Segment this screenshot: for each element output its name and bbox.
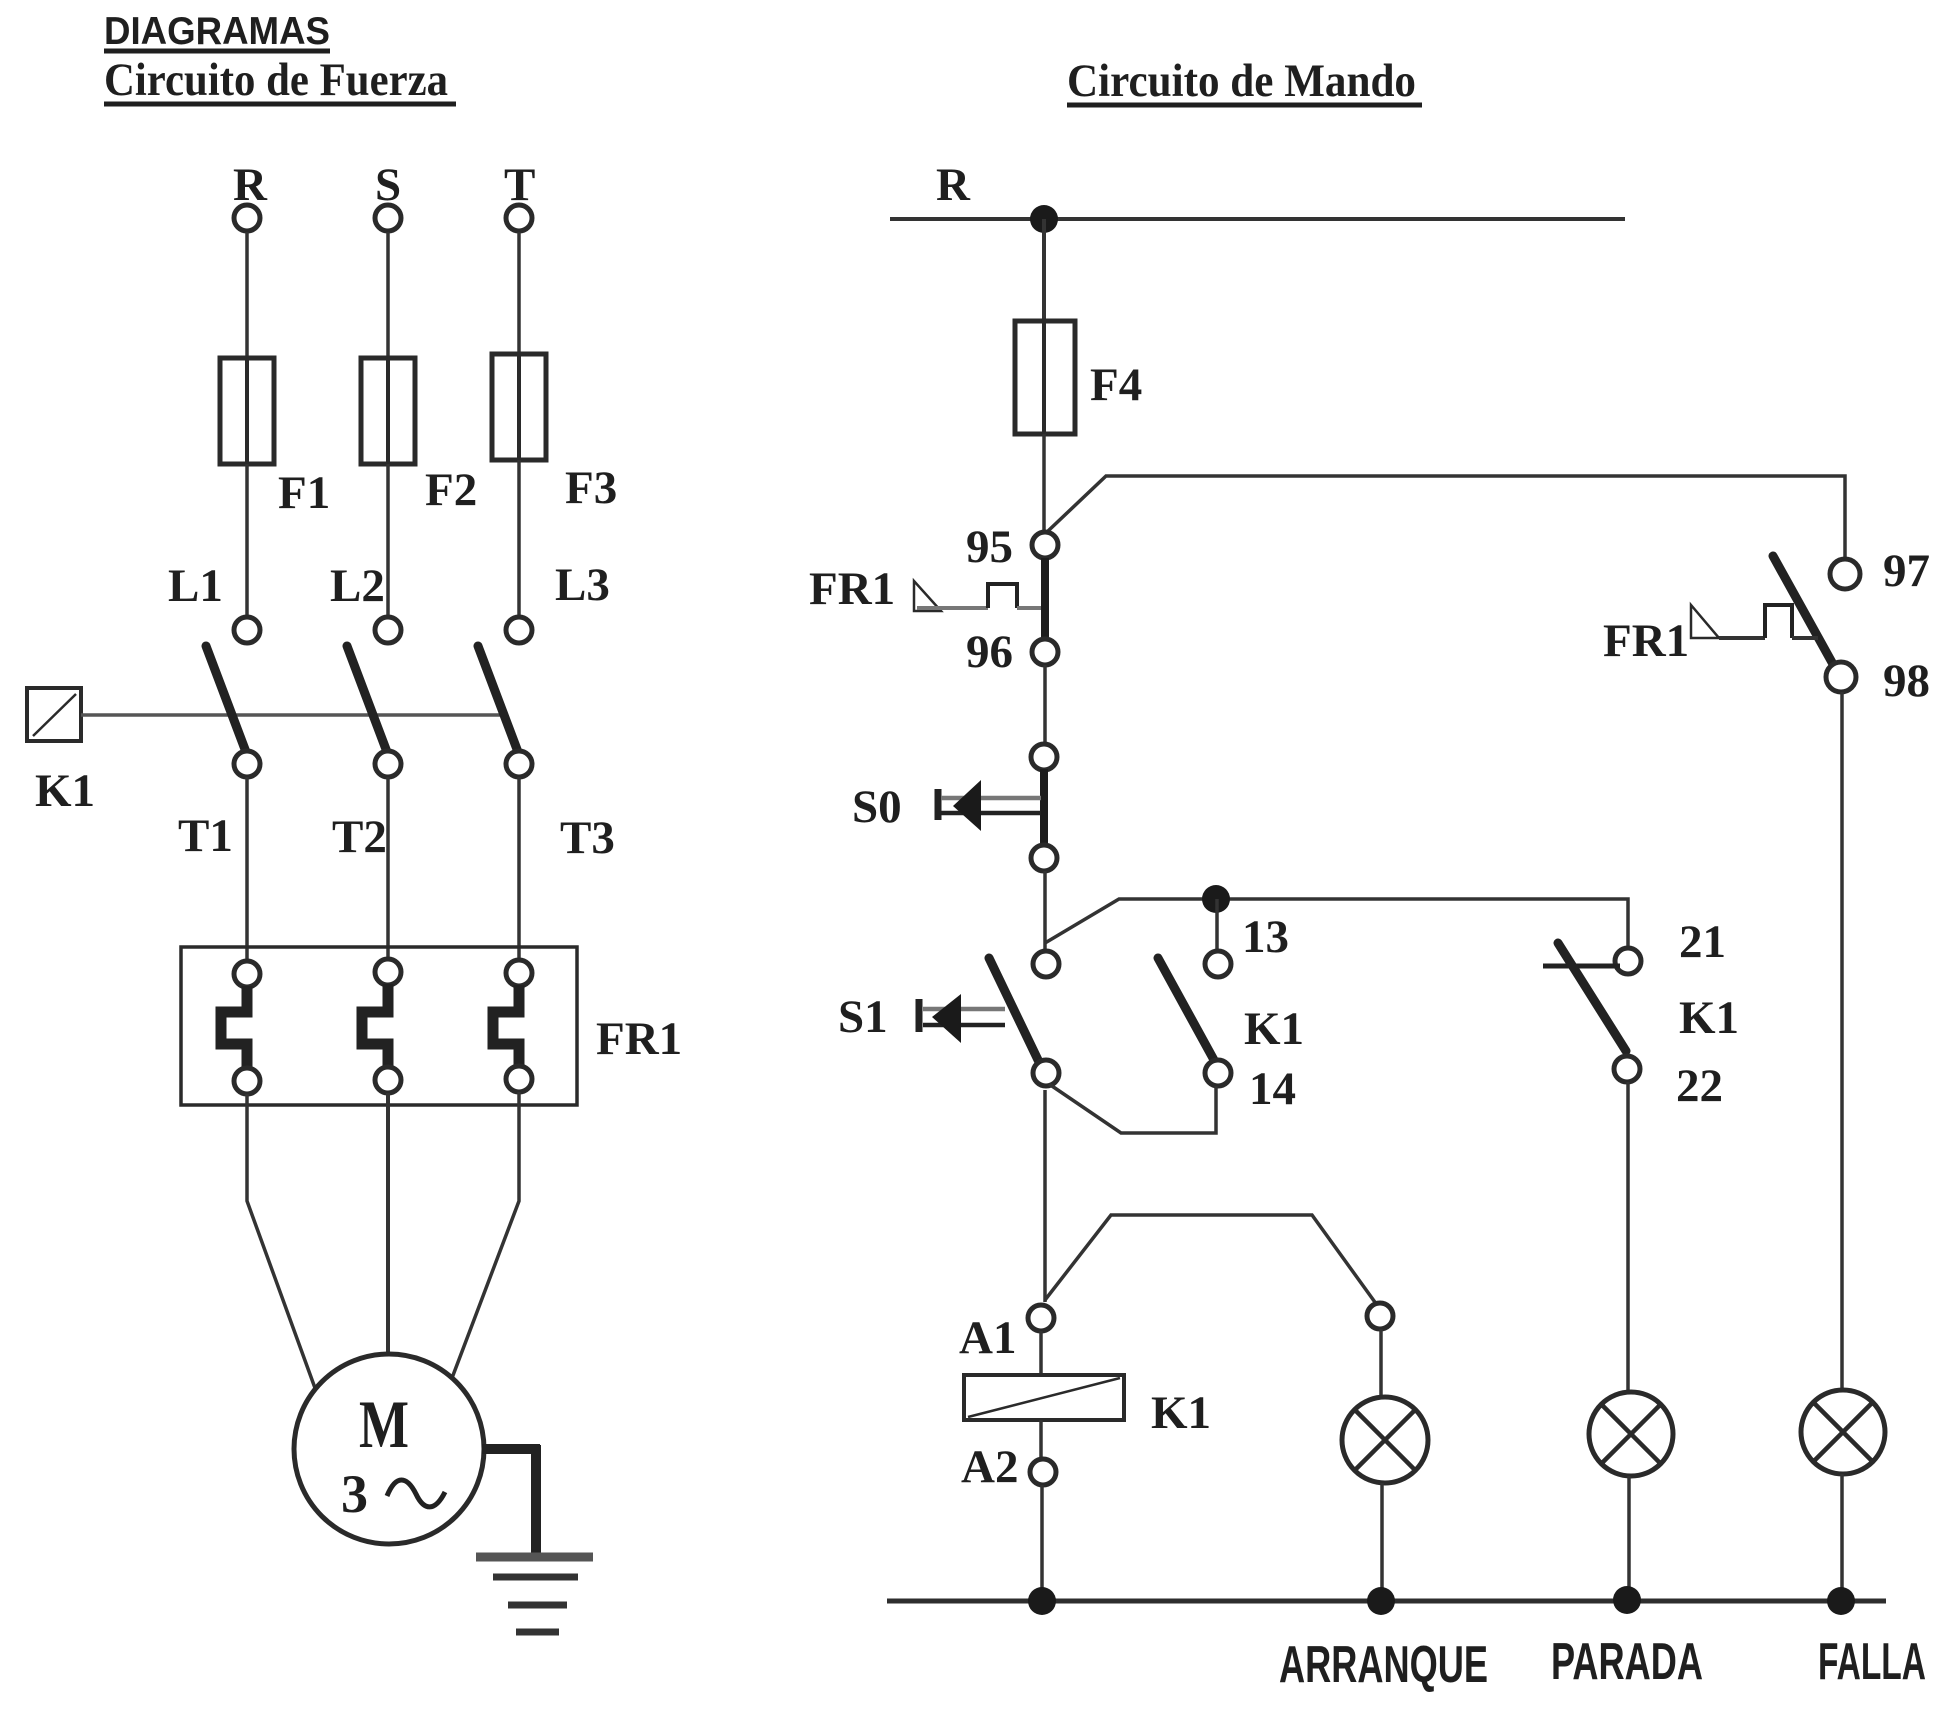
svg-text:M: M: [359, 1386, 409, 1462]
wire A2 to bottom bus: [1040, 1485, 1044, 1601]
wire F2 to L2: [386, 464, 390, 617]
svg-text:A2: A2: [961, 1441, 1018, 1493]
terminal 97: [1830, 559, 1860, 589]
terminal 98: [1826, 662, 1856, 692]
wire dot to 13: [1215, 899, 1219, 952]
S1 upper terminal: [1033, 951, 1059, 977]
lamp FALLA: [1801, 1390, 1885, 1474]
ground: [476, 1445, 593, 1632]
K1 coil body: [964, 1375, 1124, 1420]
svg-text:97: 97: [1883, 545, 1930, 597]
wire S0 to S1: [1043, 871, 1047, 952]
wire T to F3: [517, 232, 521, 356]
wire top bus R: [890, 217, 1625, 221]
overload relay FR1 box: [181, 947, 577, 1105]
S1 plunger: [916, 999, 923, 1032]
lamp ARRANQUE body: [1342, 1397, 1428, 1483]
contact FR1 NO (97/98): [1603, 545, 1930, 707]
svg-text:14: 14: [1249, 1063, 1296, 1115]
svg-text:3: 3: [341, 1464, 368, 1524]
wire S1 bottom to 14 bottom: [1049, 1084, 1216, 1133]
K1 linkage line: [81, 713, 505, 717]
wire 96 to S0: [1043, 665, 1047, 745]
svg-text:13: 13: [1242, 911, 1289, 963]
wire coil to A2: [1039, 1420, 1043, 1459]
svg-text:F2: F2: [425, 464, 477, 516]
K1 NC bridge bar: [1543, 964, 1620, 969]
wire lamp to bus: [1380, 1483, 1384, 1601]
terminal S: [375, 205, 401, 231]
wire F1 to L1: [245, 464, 249, 617]
wire F4 to 95: [1042, 434, 1046, 533]
coil K1: [964, 1375, 1211, 1439]
S0 plunger: [935, 789, 942, 820]
svg-text:R: R: [936, 159, 971, 211]
wire T3 to motor: [452, 1092, 519, 1378]
terminal T: [506, 205, 532, 231]
svg-text:K1: K1: [1244, 1003, 1304, 1055]
svg-text:F4: F4: [1090, 359, 1142, 411]
svg-text:FR1: FR1: [596, 1013, 682, 1065]
svg-text:L1: L1: [168, 560, 223, 612]
wire lamp to bus: [1627, 1476, 1631, 1601]
fuse F1: [220, 358, 274, 464]
contactor blade pole 1: [206, 646, 246, 752]
motor body circle: [294, 1354, 484, 1544]
junction dot 13 branch: [1202, 885, 1230, 913]
svg-text:T1: T1: [178, 810, 233, 862]
lamp PARADA: [1589, 1392, 1673, 1476]
wire F3 to L3: [517, 460, 521, 617]
svg-text:F3: F3: [565, 462, 617, 514]
svg-text:F1: F1: [278, 467, 330, 519]
pushbutton S0 (NC stop): [852, 744, 1057, 871]
terminal 22: [1614, 1056, 1640, 1082]
wire terminal to lamp: [1379, 1329, 1383, 1398]
svg-text:K1: K1: [35, 765, 95, 817]
wire R to F1: [245, 232, 249, 360]
wire branch to 97 (diagonal + horizontal + vertical): [1048, 476, 1845, 559]
FR1 NC contact closed bar: [1041, 558, 1049, 640]
K1 NC blade: [1558, 943, 1626, 1051]
FR1 heater pole 2: [375, 959, 401, 985]
fuse F3: [492, 354, 546, 460]
S0 upper terminal: [1031, 744, 1057, 770]
junction dot ARRANQUE/bus: [1367, 1587, 1395, 1615]
FR1 trip flag: [914, 581, 941, 611]
title DIAGRAMAS: [104, 10, 330, 53]
svg-text:T3: T3: [560, 812, 615, 864]
svg-text:T2: T2: [332, 811, 387, 863]
S1 lower terminal: [1033, 1060, 1059, 1086]
FR1 heater pole 3: [506, 960, 532, 986]
title Circuito de Fuerza: [104, 54, 456, 106]
svg-text:95: 95: [966, 521, 1013, 573]
wire lamp to bus: [1840, 1474, 1844, 1601]
wire motor to ground: [482, 1444, 540, 1454]
S1 blade: [989, 958, 1039, 1062]
sine symbol: [387, 1480, 445, 1507]
wire A1 to coil: [1039, 1331, 1043, 1375]
ARRANQUE lamp terminal: [1367, 1303, 1393, 1329]
svg-text:FR1: FR1: [1603, 615, 1689, 667]
wire bottom bus: [887, 1599, 1886, 1604]
contactor K1 aux box: [27, 688, 81, 741]
lamp ARRANQUE: [1342, 1397, 1428, 1483]
FR1 heater pulse symbol: [917, 606, 988, 610]
ground bars: [476, 1553, 593, 1562]
svg-text:Circuito de Mando: Circuito de Mando: [1067, 55, 1416, 107]
svg-text:ARRANQUE: ARRANQUE: [1279, 1636, 1488, 1694]
FR1 heater pole 1: [234, 961, 260, 987]
svg-text:A1: A1: [959, 1312, 1016, 1364]
terminal R: [234, 205, 260, 231]
motor M 3~: [294, 1354, 484, 1544]
FR1 NO blade: [1773, 556, 1834, 666]
wire T1 down: [245, 777, 249, 962]
FR1 heater pulse symbol: [1719, 636, 1765, 640]
wire S1 to A1: [1043, 1090, 1047, 1302]
lamp FALLA body: [1801, 1390, 1885, 1474]
terminal 14: [1205, 1060, 1231, 1086]
junction dot A2/bus: [1028, 1587, 1056, 1615]
FR1 trip flag (left): [809, 563, 1041, 615]
fuse F2: [361, 358, 415, 464]
lamp PARADA body: [1589, 1392, 1673, 1476]
junction dot FALLA/bus: [1827, 1587, 1855, 1615]
junction dot on R bus: [1030, 205, 1058, 233]
svg-text:FALLA: FALLA: [1818, 1633, 1926, 1691]
svg-text:L3: L3: [555, 559, 610, 611]
svg-text:K1: K1: [1679, 992, 1739, 1044]
title Circuito de Mando: [1067, 55, 1422, 107]
fuse F4: [1015, 321, 1075, 434]
contact K1 NO (13/14): [1158, 911, 1304, 1115]
svg-text:21: 21: [1679, 916, 1726, 968]
terminal 21: [1615, 948, 1641, 974]
S0 lower terminal: [1031, 845, 1057, 871]
terminal 13: [1205, 951, 1231, 977]
wire bus to F4: [1042, 219, 1046, 323]
pushbutton S1 (NO start): [838, 951, 1059, 1086]
contact K1 NC (21/22): [1543, 916, 1739, 1112]
K1 NO blade: [1158, 958, 1214, 1060]
svg-text:K1: K1: [1151, 1387, 1211, 1439]
wire S to F2: [386, 232, 390, 360]
wire T2 to motor: [386, 1093, 390, 1354]
wire 22 to PARADA lamp: [1626, 1082, 1630, 1393]
wire branch to ARRANQUE lamp: [1045, 1215, 1377, 1305]
svg-text:S0: S0: [852, 781, 902, 833]
svg-text:L2: L2: [330, 560, 385, 612]
contactor blade pole 3: [478, 646, 518, 752]
wire branch diagonal to 13/21 rail: [1045, 899, 1628, 948]
svg-text:PARADA: PARADA: [1551, 1633, 1703, 1691]
svg-text:96: 96: [966, 626, 1013, 678]
svg-text:S1: S1: [838, 991, 888, 1043]
FR1 trip flag: [1691, 605, 1719, 638]
contactor blade pole 2: [347, 646, 387, 752]
svg-text:22: 22: [1676, 1060, 1723, 1112]
svg-text:Circuito de Fuerza: Circuito de Fuerza: [104, 54, 448, 106]
svg-text:98: 98: [1883, 655, 1930, 707]
junction dot PARADA/bus: [1613, 1586, 1641, 1614]
svg-text:FR1: FR1: [809, 563, 895, 615]
svg-text:DIAGRAMAS: DIAGRAMAS: [104, 10, 330, 53]
S0 closed contact bar: [1040, 769, 1048, 847]
wire 98 to FALLA lamp: [1840, 692, 1844, 1391]
wire T1 to motor: [247, 1094, 315, 1388]
